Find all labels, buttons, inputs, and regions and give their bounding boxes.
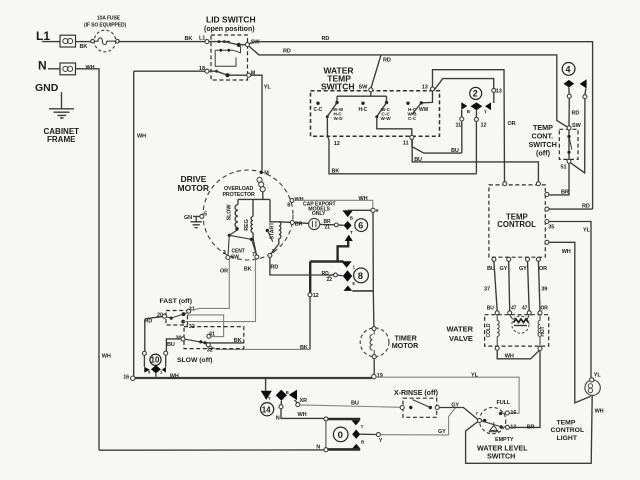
svg-text:C-C: C-C	[314, 107, 323, 113]
temp control light DS1	[585, 380, 600, 395]
svg-text:RD: RD	[144, 319, 152, 325]
fast switch box	[166, 311, 188, 326]
slow switch arm	[185, 339, 206, 343]
x-rinse box	[403, 398, 437, 417]
svg-text:WH: WH	[137, 134, 146, 140]
svg-text:39: 39	[541, 286, 547, 292]
svg-text:LID SWITCH: LID SWITCH	[206, 15, 256, 25]
svg-text:13: 13	[422, 85, 428, 91]
svg-text:GN: GN	[184, 215, 192, 221]
svg-text:H-C: H-C	[359, 107, 368, 113]
svg-text:WH: WH	[298, 412, 307, 418]
svg-text:19: 19	[377, 373, 383, 379]
svg-text:35: 35	[548, 225, 554, 231]
connector 8	[354, 268, 369, 283]
svg-text:GY: GY	[451, 402, 459, 408]
wire 13 to connector 2 pin T	[434, 79, 494, 91]
wire BU 11 to temp control	[412, 139, 538, 182]
wire left loop down to 16	[133, 71, 135, 376]
connector 2	[470, 87, 482, 99]
svg-text:6: 6	[358, 221, 363, 231]
wire WH down to timer motor	[372, 212, 375, 326]
wire RD second (SW to temp cont switch)	[249, 46, 567, 127]
svg-text:C-C: C-C	[408, 116, 417, 121]
svg-text:8: 8	[358, 271, 363, 282]
terminal 13 (WTS)	[431, 87, 435, 91]
svg-text:31: 31	[209, 331, 215, 337]
svg-text:BR: BR	[527, 424, 535, 430]
terminal 12 (WTS)	[327, 117, 476, 174]
switch arm 3 (13 to WW)	[420, 101, 423, 104]
wire WH motor 8 to connector 6 B	[294, 200, 373, 208]
svg-text:SLOW: SLOW	[227, 204, 233, 221]
svg-text:SWITCH: SWITCH	[487, 452, 515, 461]
mixing valve symbol	[510, 315, 530, 333]
temp cont switch box	[559, 129, 578, 159]
svg-text:BU: BU	[414, 157, 422, 163]
wire RD branch to water temp switch SW	[371, 55, 381, 88]
temp control U1	[489, 185, 545, 257]
svg-text:LIGHT: LIGHT	[557, 435, 578, 442]
svg-text:YL: YL	[471, 372, 479, 378]
fast switch arm	[170, 317, 173, 320]
winding REG	[244, 199, 256, 255]
connector 10 pin circles	[142, 351, 146, 355]
winding SLOW	[227, 199, 239, 230]
svg-text:BU: BU	[167, 342, 175, 348]
wire light to x-rinse GY node	[466, 395, 593, 463]
motor terminal 3	[226, 256, 230, 260]
svg-text:(IF SO EQUIPPED): (IF SO EQUIPPED)	[84, 23, 126, 29]
svg-text:WW: WW	[419, 107, 429, 113]
terminal 11 (WTS)	[377, 117, 412, 136]
wire BK fuse to lid switch	[118, 41, 205, 43]
wire OR fast 31 to motor 3	[190, 259, 229, 310]
wire RD top (SW to right)	[249, 42, 592, 209]
centrifugal switch	[228, 231, 257, 261]
svg-text:Y: Y	[379, 438, 383, 444]
svg-text:CONTROL: CONTROL	[551, 427, 585, 434]
svg-text:MOTOR: MOTOR	[392, 341, 419, 350]
svg-text:12: 12	[313, 293, 319, 299]
svg-text:RD: RD	[283, 49, 291, 55]
drive motor M1	[203, 170, 293, 260]
wire fast arm to slow 31	[187, 315, 224, 337]
wire BR 51 to temp control	[549, 163, 569, 195]
svg-text:BK: BK	[244, 266, 252, 272]
connector 4	[562, 63, 575, 76]
svg-text:11: 11	[456, 123, 462, 129]
internal SW feed	[337, 92, 387, 101]
temp cont switch contacts	[568, 130, 570, 159]
svg-text:L1: L1	[36, 29, 50, 43]
wire RD temp control to top line	[549, 208, 593, 210]
svg-text:FRAME: FRAME	[47, 135, 76, 144]
wire BU 11 to connector 2	[412, 139, 462, 153]
wire 13 into switch	[423, 91, 433, 103]
svg-text:10A FUSE: 10A FUSE	[97, 16, 121, 22]
overload protector	[223, 177, 266, 198]
svg-text:OVERLOAD: OVERLOAD	[224, 186, 253, 192]
svg-text:MOTOR: MOTOR	[178, 183, 209, 193]
svg-text:ONLY: ONLY	[312, 211, 326, 217]
wire GY2 to water valve	[528, 261, 530, 311]
svg-text:BU: BU	[351, 400, 359, 406]
svg-text:0: 0	[338, 430, 343, 441]
svg-text:51: 51	[561, 165, 567, 171]
terminal 12 (harness)	[308, 293, 312, 297]
svg-text:T: T	[484, 110, 487, 115]
wire BK arm node	[206, 342, 244, 344]
contact 31 (fast)	[187, 309, 191, 313]
pressure dome	[489, 422, 499, 432]
svg-text:BK: BK	[185, 36, 193, 42]
bus wire YL timer to water level switch 16	[376, 377, 519, 413]
contact 32 (slow)	[206, 343, 210, 347]
wire L1 to connector	[42, 41, 60, 43]
svg-text:M: M	[264, 171, 269, 177]
svg-text:14: 14	[262, 405, 271, 414]
contact C-C	[316, 102, 319, 105]
svg-text:WH: WH	[102, 354, 111, 360]
water valve top terminals	[495, 311, 499, 315]
svg-text:5: 5	[204, 212, 207, 218]
svg-text:YL: YL	[264, 85, 272, 91]
svg-text:WH: WH	[562, 249, 571, 255]
svg-text:RD: RD	[322, 36, 330, 42]
svg-text:N: N	[38, 59, 47, 73]
svg-text:GY: GY	[500, 266, 508, 272]
wire connector 6 T to 12 and connector 8	[310, 241, 348, 262]
svg-text:21: 21	[325, 225, 331, 231]
svg-text:11: 11	[403, 140, 409, 146]
slow switch box	[184, 327, 244, 349]
wire RD 20 to connector 10	[145, 317, 163, 352]
svg-text:10: 10	[151, 356, 160, 365]
switch arm 2 (to 11)	[385, 101, 388, 104]
wire GY x-rinse to water level switch	[439, 408, 478, 420]
svg-text:37: 37	[484, 286, 490, 292]
svg-text:16: 16	[510, 410, 516, 416]
temp control right pins	[545, 192, 549, 196]
connector CO (N)	[60, 63, 76, 75]
svg-text:BK: BK	[300, 345, 308, 351]
svg-text:SLOW (off): SLOW (off)	[177, 357, 212, 364]
svg-text:OR: OR	[220, 268, 228, 274]
wire connector 8 B to timer line	[352, 290, 373, 292]
contact H-C	[361, 102, 364, 105]
svg-text:2: 2	[473, 89, 478, 99]
svg-text:47: 47	[522, 306, 528, 312]
wire OR 13 to temp control	[433, 70, 505, 182]
wire M to motor (YL)	[251, 75, 262, 171]
svg-text:BK: BK	[332, 169, 340, 175]
wire GY to water valve	[509, 261, 510, 311]
x-rinse contacts	[400, 406, 404, 410]
wire BK to fuse	[76, 41, 92, 43]
motor terminal M	[260, 171, 263, 174]
svg-text:PROTECTOR: PROTECTOR	[223, 192, 256, 198]
svg-text:T: T	[350, 230, 353, 235]
svg-text:32: 32	[207, 348, 213, 354]
svg-text:W-W: W-W	[381, 116, 392, 121]
wire N bottom	[99, 449, 324, 451]
wire Y connector 0 to GY node	[360, 433, 376, 435]
contact 32 (fast)	[181, 320, 185, 324]
connector 4 left pin to temp cont switch SW	[568, 88, 570, 95]
wire WH 14 to connector 0	[281, 409, 326, 419]
svg-text:WH: WH	[359, 196, 368, 202]
contact 31 (slow)	[207, 334, 211, 338]
svg-text:N: N	[276, 415, 280, 421]
svg-text:RD: RD	[271, 264, 279, 270]
wire RD motor 1 to connector 8	[270, 257, 334, 275]
wire BU XR to x-rinse	[300, 405, 401, 407]
svg-text:BR: BR	[561, 190, 569, 196]
wire OR to water valve	[538, 261, 540, 311]
svg-text:FULL: FULL	[497, 400, 511, 406]
contact group labels H-C W-B C-C	[406, 102, 409, 105]
wire YL 35 to light	[549, 222, 591, 378]
lid switch mechanical link	[215, 47, 240, 67]
svg-text:OR: OR	[539, 266, 547, 272]
svg-text:WH: WH	[505, 353, 514, 359]
terminal SW (TCS)	[567, 126, 571, 130]
svg-text:GY: GY	[438, 429, 446, 435]
connector 14	[265, 378, 267, 391]
svg-text:FAST (off): FAST (off)	[160, 298, 192, 305]
svg-text:T: T	[361, 425, 364, 430]
svg-text:47: 47	[511, 306, 517, 312]
svg-text:GY: GY	[519, 266, 527, 272]
wire 18 from outer loop	[134, 70, 205, 72]
svg-text:W-D: W-D	[334, 116, 344, 121]
connector 6	[355, 219, 368, 232]
water temp switch box	[311, 91, 440, 137]
svg-text:VALVE: VALVE	[449, 334, 473, 343]
svg-text:BK: BK	[80, 44, 88, 50]
svg-text:B: B	[286, 390, 289, 395]
temp control bottom pins	[492, 257, 496, 261]
svg-text:YL: YL	[594, 372, 602, 378]
wire WH temp control to light	[549, 242, 591, 403]
svg-text:BU: BU	[487, 306, 495, 312]
svg-text:X-RINSE (off): X-RINSE (off)	[394, 390, 438, 397]
motor terminal BR (cap)	[290, 221, 294, 225]
fuse F1 10A	[84, 16, 126, 52]
connector 14 pin XR	[295, 400, 298, 403]
terminal 51	[567, 159, 571, 163]
wire BU 30 to connector 10	[166, 339, 181, 351]
wire BK fast 32 to motor 7	[183, 259, 255, 322]
timer motor M2	[360, 328, 389, 357]
connector 2 pin 12	[475, 110, 477, 117]
svg-text:4: 4	[566, 64, 571, 74]
svg-text:12: 12	[481, 123, 487, 129]
svg-text:EMPTY: EMPTY	[495, 437, 514, 443]
motor terminal 8	[290, 198, 294, 202]
ground (cabinet frame)	[49, 92, 74, 118]
svg-text:(off): (off)	[536, 149, 551, 158]
svg-text:N: N	[316, 444, 320, 450]
svg-text:BK: BK	[234, 338, 242, 344]
motor terminal 5 + ground GN	[184, 212, 207, 228]
connector 2 pin 11	[461, 110, 463, 117]
svg-text:RD: RD	[322, 271, 330, 277]
svg-text:REG: REG	[244, 219, 250, 230]
connector 4 right pin to 51	[584, 89, 587, 95]
svg-text:TEMP: TEMP	[557, 419, 576, 426]
connector CO (L1)	[60, 35, 76, 47]
svg-text:7: 7	[252, 252, 255, 258]
svg-text:22: 22	[327, 277, 333, 283]
svg-text:WATER: WATER	[447, 325, 474, 334]
svg-text:(open position): (open position)	[204, 26, 255, 33]
switch arm 1 (to 12)	[335, 101, 338, 104]
wire 12 down to slow switch BK	[309, 297, 311, 350]
timer junction 19 on bus	[372, 374, 376, 378]
svg-text:3: 3	[223, 250, 226, 256]
temp control top pins	[503, 182, 507, 186]
motor terminal 1	[268, 253, 272, 257]
svg-text:16: 16	[123, 375, 129, 381]
motor terminal 7	[255, 255, 259, 259]
motor internal bus	[238, 192, 270, 200]
svg-text:COLD: COLD	[486, 323, 492, 337]
svg-text:WH: WH	[170, 373, 179, 379]
svg-text:SW: SW	[231, 254, 239, 260]
water level switch S7	[479, 407, 505, 433]
connector 0	[326, 418, 360, 421]
svg-text:13: 13	[496, 89, 502, 95]
wire WH valve common	[497, 350, 539, 359]
terminal 16	[131, 376, 135, 380]
wire BU to water valve	[494, 261, 497, 311]
svg-text:GND: GND	[35, 82, 59, 94]
svg-text:YL: YL	[583, 228, 591, 234]
svg-text:L1: L1	[199, 36, 205, 42]
svg-text:T: T	[268, 396, 271, 401]
svg-text:RD: RD	[383, 58, 391, 64]
svg-text:SW: SW	[572, 123, 582, 129]
svg-text:8: 8	[287, 203, 290, 209]
lid switch box	[211, 35, 248, 80]
lid switch pole 2 (18-M)	[199, 66, 256, 77]
connector 14 pin N	[280, 401, 282, 405]
svg-text:SW: SW	[359, 85, 369, 91]
svg-text:HOT: HOT	[540, 326, 546, 336]
svg-text:1: 1	[272, 249, 275, 255]
svg-text:9: 9	[376, 208, 379, 213]
svg-text:12: 12	[334, 141, 340, 147]
svg-text:XR: XR	[300, 398, 308, 404]
svg-text:RD: RD	[572, 111, 580, 117]
svg-text:SWITCH: SWITCH	[321, 81, 355, 91]
connector 10	[150, 354, 161, 365]
wire BR 13 to water valve	[509, 351, 540, 428]
svg-text:CONTROL: CONTROL	[497, 220, 536, 229]
winding START	[266, 199, 291, 254]
svg-text:WH: WH	[86, 65, 95, 71]
svg-text:RD: RD	[582, 204, 590, 210]
svg-text:BU: BU	[451, 148, 459, 154]
empty contact 13	[500, 425, 503, 428]
svg-text:OR: OR	[508, 121, 516, 127]
svg-text:OR: OR	[541, 306, 549, 312]
main bus wire 16 to timer	[135, 377, 372, 379]
lid switch pole 1 (L1-SW)	[205, 40, 260, 48]
svg-text:WH: WH	[595, 409, 604, 415]
